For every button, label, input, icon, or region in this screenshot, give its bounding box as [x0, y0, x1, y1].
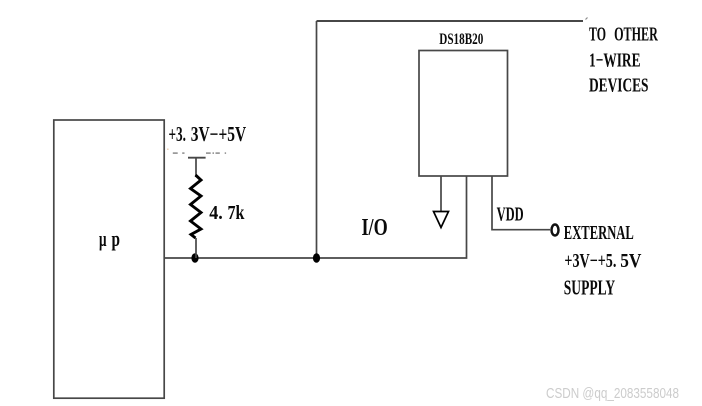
svg-text:TO: TO [589, 23, 606, 45]
erased faint marks [173, 152, 226, 154]
faint dot [167, 148, 169, 150]
svg-text:5V: 5V [620, 250, 642, 272]
svg-text:4.: 4. [209, 202, 223, 224]
stray tick mark [586, 18, 588, 20]
wire main I/O line from μp to DS18B20 DQ pin [164, 176, 467, 258]
svg-text:+3.: +3. [169, 122, 187, 146]
svg-text:DEVICES: DEVICES [589, 75, 649, 97]
wire VDD pin 3 [492, 176, 550, 230]
svg-text:7k: 7k [228, 202, 246, 224]
wire vertical drop from top rail to I/O line [316, 21, 318, 258]
wire top rail to other 1-wire devices [317, 20, 584, 22]
svg-text:I/O: I/O [362, 215, 388, 241]
svg-text:1−WIRE: 1−WIRE [589, 49, 641, 71]
svg-text:VDD: VDD [497, 203, 524, 225]
resistor R1 4.7k zigzag [191, 175, 202, 238]
power rail bar +3.3V-+5V [188, 157, 206, 159]
terminal circle external supply [552, 225, 559, 236]
DS18B20 box U2 [419, 51, 508, 177]
node junction dot A (resistor tap) [191, 253, 198, 262]
svg-text:SUPPLY: SUPPLY [564, 275, 615, 299]
svg-text:CSDN @qq_2083558048: CSDN @qq_2083558048 [546, 386, 679, 402]
node junction dot B (bus tap) [313, 253, 320, 262]
svg-text:DS18B20: DS18B20 [439, 31, 483, 48]
svg-text:EXTERNAL: EXTERNAL [564, 222, 634, 244]
svg-text:OTHER: OTHER [614, 23, 658, 45]
wire resistor stem [195, 158, 197, 258]
ground symbol [434, 212, 449, 228]
svg-text:p: p [112, 226, 121, 251]
microcontroller U1 (μp box) [54, 120, 164, 398]
svg-text:μ: μ [99, 226, 107, 251]
svg-text:3V−+5V: 3V−+5V [191, 122, 246, 146]
wire GND pin 1 [440, 176, 442, 211]
svg-text:+3V−+5.: +3V−+5. [564, 250, 616, 272]
